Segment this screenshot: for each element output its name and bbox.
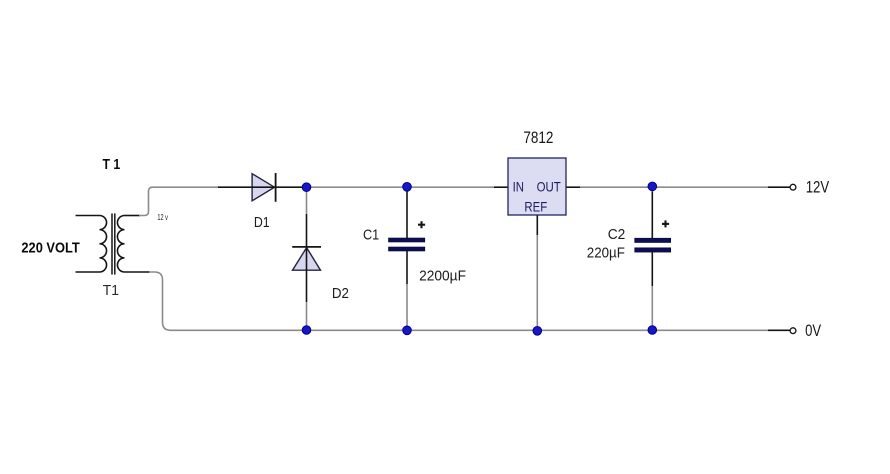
svg-text:7812: 7812	[523, 129, 553, 147]
wire REF to bottom rail	[536, 235, 538, 326]
transformer T1 primary top lead	[76, 215, 100, 217]
wire top rail D1 segment	[218, 186, 307, 188]
wire secondary bottom to bottom rail	[149, 272, 768, 330]
svg-text:C2: C2	[608, 226, 626, 243]
label C2 plus	[662, 220, 669, 227]
transformer T1 primary bottom lead	[76, 271, 100, 273]
svg-text:OUT: OUT	[537, 179, 561, 195]
wire C2 branch lower	[651, 252, 653, 286]
junction node C1 bottom	[403, 326, 412, 335]
wire D2 branch middle	[306, 214, 308, 302]
transformer T1 secondary bottom lead	[125, 271, 151, 273]
wire top rail D1 junction to C1 and regulator	[307, 186, 495, 188]
diode D1	[252, 173, 276, 202]
wire top rail OUT to terminal	[580, 186, 768, 188]
wire D2 branch lower	[306, 302, 308, 326]
diode D2	[292, 247, 321, 270]
svg-text:IN: IN	[513, 179, 524, 195]
transformer T1 core	[112, 214, 115, 275]
junction node D2 bottom	[302, 326, 311, 335]
regulator U1 7812	[508, 158, 566, 215]
svg-text:2200µF: 2200µF	[419, 268, 466, 285]
wire C1 branch lower	[406, 251, 408, 284]
svg-text:REF: REF	[524, 198, 547, 214]
svg-text:220 VOLT: 220 VOLT	[21, 240, 79, 257]
wire regulator IN lead	[494, 186, 508, 188]
junction node C2 bottom	[648, 326, 657, 335]
transformer T1 primary winding	[100, 216, 107, 273]
svg-text:C1: C1	[363, 226, 379, 243]
transformer T1 secondary winding	[117, 216, 124, 273]
svg-text:0V: 0V	[805, 322, 821, 340]
junction node C1 top	[403, 183, 412, 192]
capacitor C1	[389, 238, 425, 251]
wire 12V terminal lead	[768, 186, 790, 188]
transformer T1 secondary top lead	[125, 215, 141, 217]
label C1 plus	[418, 221, 425, 228]
wire regulator OUT lead	[566, 186, 580, 188]
wire secondary top to top rail	[139, 187, 218, 215]
wire 0V terminal lead	[768, 329, 790, 331]
wire C2 branch upper	[651, 191, 653, 238]
wire C2 branch lower gray	[651, 286, 653, 326]
wire C1 branch lower gray	[406, 284, 408, 326]
junction node REF bottom	[533, 327, 542, 336]
svg-text:D2: D2	[332, 285, 349, 302]
svg-text:12 v: 12 v	[157, 213, 168, 222]
wire D2 branch upper	[306, 192, 308, 215]
junction node C2 top	[648, 182, 657, 191]
svg-text:T1: T1	[103, 283, 119, 299]
svg-text:T 1: T 1	[103, 156, 121, 173]
terminal 12V	[790, 184, 796, 190]
wire C1 branch upper	[406, 191, 408, 238]
svg-text:220µF: 220µF	[587, 244, 625, 261]
svg-text:12V: 12V	[806, 178, 830, 196]
terminal 0V	[790, 328, 796, 334]
wire regulator REF lead	[536, 215, 538, 235]
capacitor C2	[635, 238, 671, 252]
svg-text:D1: D1	[254, 214, 270, 231]
junction node D1-D2 top	[302, 183, 311, 192]
